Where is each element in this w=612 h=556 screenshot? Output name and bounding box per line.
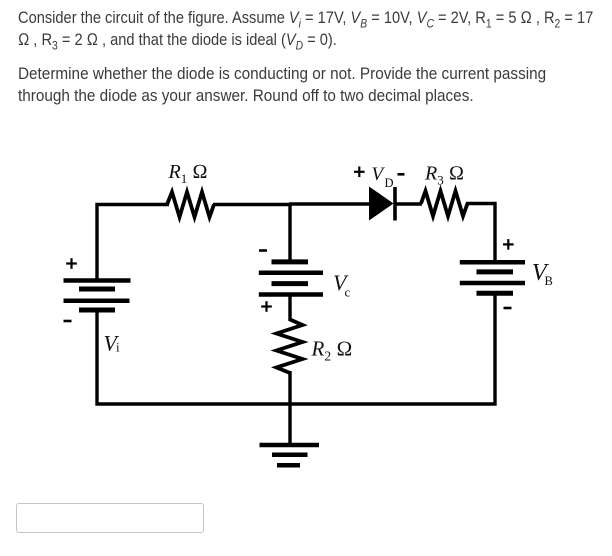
svg-text:D: D: [385, 176, 394, 190]
minus sign of VB: [504, 307, 512, 310]
ground bar 3: [277, 463, 300, 468]
bottom wire: [96, 402, 497, 405]
battery Vc plate 3 (short): [272, 281, 309, 286]
label + VD -: [372, 164, 394, 190]
battery Vc plate 1 (short -): [272, 259, 309, 264]
battery Vc plate 4 (long +): [259, 292, 323, 297]
label Vc: [333, 270, 351, 300]
node A junction vertical wire to Vc: [288, 203, 291, 262]
wire VB bottom to bottom-right corner: [493, 294, 496, 406]
minus sign of VD: [398, 173, 405, 176]
label Vi: [104, 331, 121, 356]
battery VB plate 1 (long +): [460, 260, 525, 265]
svg-text:V: V: [372, 164, 386, 185]
svg-text:i: i: [116, 340, 120, 355]
label R3 Ω: [424, 163, 464, 188]
plus sign of VD: [354, 167, 365, 178]
battery Vi plate 3 (long): [64, 298, 130, 303]
diode D cathode bar: [393, 187, 397, 221]
resistor R1: [167, 192, 214, 217]
battery VB plate 2 (short): [477, 269, 514, 274]
battery VB plate 4 (short -): [477, 291, 514, 296]
svg-text:R3 Ω: R3 Ω: [424, 163, 464, 188]
resistor R2: [277, 320, 303, 374]
label R1 Ω: [168, 161, 208, 186]
wire left branch lower (Vi to bottom wire): [95, 308, 98, 406]
wire Vc to R2: [288, 293, 291, 322]
wire diode cathode to R3: [396, 202, 422, 205]
plus sign of VB: [503, 239, 514, 250]
wire R1 to node A: [213, 203, 291, 206]
battery VB plate 3 (long): [460, 281, 525, 286]
svg-text:c: c: [345, 285, 351, 300]
resistor R3: [421, 191, 468, 216]
label R2 Ω: [311, 337, 353, 364]
label VB: [532, 259, 553, 288]
ground bar 2: [272, 452, 308, 457]
svg-text:B: B: [545, 274, 553, 288]
wire R3 to top-right corner down to VB: [466, 204, 495, 263]
wire top-left vertical (left branch upper): [97, 205, 169, 282]
diode D anode triangle: [369, 187, 394, 221]
svg-text:R1 Ω: R1 Ω: [168, 161, 208, 186]
battery Vi plate 2 (short): [79, 287, 115, 292]
minus sign of Vc: [259, 249, 267, 252]
battery Vc plate 2 (long): [259, 271, 323, 276]
wire R2 to ground: [288, 371, 291, 445]
battery Vi plate 1 (long +): [64, 278, 131, 283]
answer input box: [16, 503, 204, 533]
plus sign of Vc: [261, 301, 272, 312]
svg-text:R2 Ω: R2 Ω: [311, 337, 353, 364]
plus sign of Vi: [66, 258, 77, 269]
minus sign of Vi: [64, 320, 72, 323]
wire node A to diode anode: [289, 202, 370, 205]
ground bar 1: [260, 443, 320, 448]
battery Vi plate 4 (short -): [79, 308, 115, 313]
